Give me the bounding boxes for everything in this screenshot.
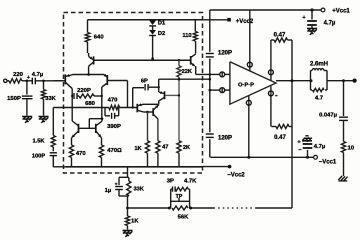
svg-text:33K: 33K — [133, 186, 144, 192]
compensation column wire — [209, 10, 212, 157]
+Vcc1 rail wire — [210, 9, 321, 11]
svg-text:470: 470 — [108, 98, 119, 104]
svg-text:4.7µ: 4.7µ — [32, 72, 44, 78]
wire Q5 collector to Q6 base — [144, 111, 153, 114]
capacitor 4.7u -Vcc1 decoupling — [297, 140, 326, 159]
wire A drop at Q4 emitter — [158, 79, 160, 92]
wire input to Q1 base — [53, 80, 65, 82]
resistor 470 left — [69, 145, 86, 167]
hybrid module dashed box — [64, 13, 203, 174]
svg-text:470: 470 — [76, 151, 87, 157]
svg-text:4.7µ: 4.7µ — [324, 20, 336, 26]
wire module to feedback divider — [127, 167, 129, 178]
wire input node X — [22, 80, 32, 82]
svg-text:47: 47 — [162, 144, 168, 150]
capacitor 4.7u +Vcc1 decoupling — [302, 8, 336, 28]
wire Q4 base — [165, 94, 180, 96]
svg-text:3P: 3P — [167, 178, 174, 184]
wire to output terminal — [327, 80, 353, 82]
+Vcc2 terminal — [227, 18, 254, 25]
resistor 33K to ground — [41, 81, 56, 116]
svg-text:22K: 22K — [182, 69, 193, 75]
resistor 33K feedback — [127, 177, 145, 196]
resistor 220 input — [9, 72, 24, 83]
capacitor 4.7u input coupling — [27, 72, 44, 84]
resistor 0.47 lower boost — [271, 124, 292, 141]
svg-text:33K: 33K — [45, 96, 56, 102]
input terminal — [4, 79, 9, 82]
svg-text:0.47: 0.47 — [274, 135, 286, 141]
feedback rail — [53, 107, 137, 109]
svg-text:10: 10 — [348, 145, 355, 151]
wire Q2 collector down — [101, 87, 103, 119]
resistor 47 — [156, 119, 169, 167]
svg-text:1K: 1K — [134, 146, 142, 152]
svg-text:120P: 120P — [218, 136, 232, 142]
svg-text:2.6mH: 2.6mH — [310, 61, 328, 67]
transistor Qa bias — [89, 53, 94, 75]
capacitor 100P feedback chain — [32, 147, 57, 167]
wire A horizontal — [159, 78, 210, 81]
bias rail Qa base to Qb base — [94, 59, 190, 61]
svg-text:680: 680 — [85, 101, 96, 107]
svg-text:110: 110 — [182, 33, 191, 39]
resistor 1K to ground — [125, 208, 139, 230]
resistor 470 right — [99, 145, 122, 167]
wire divider node down — [126, 196, 129, 209]
diode D2 — [149, 26, 165, 37]
svg-text:+Vcc2: +Vcc2 — [236, 19, 254, 25]
resistor 110 — [182, 20, 197, 54]
ground below zobel — [338, 176, 347, 181]
resistor 680 degeneration — [71, 94, 103, 107]
svg-text:−Vcc2: −Vcc2 — [227, 173, 245, 179]
svg-text:220: 220 — [13, 72, 24, 78]
op-amp U1 triangle — [230, 62, 276, 104]
op-amp boost pin lower — [268, 86, 277, 126]
resistor 640 — [85, 20, 104, 53]
svg-text:0.47: 0.47 — [274, 33, 286, 39]
svg-text:1K: 1K — [131, 218, 139, 224]
svg-text:100P: 100P — [32, 154, 45, 160]
wire Qb emitter to op amp input — [196, 73, 220, 76]
svg-text:220P: 220P — [77, 88, 91, 94]
-Vcc1 rail wire — [210, 156, 313, 159]
svg-text:D1: D1 — [158, 21, 165, 27]
resistor 1.5K feedback chain — [32, 108, 55, 148]
bottom supply rail -Vcc2 inside module — [66, 166, 203, 168]
ground below 1K — [123, 231, 133, 237]
svg-text:2K: 2K — [183, 145, 191, 151]
transistor Q4 tail source — [159, 91, 165, 104]
+Vcc1 terminal — [321, 8, 350, 14]
svg-text:640: 640 — [94, 35, 105, 41]
svg-text:150P: 150P — [7, 96, 21, 102]
op-amp boost pin upper — [268, 40, 273, 80]
op-amp inverting input pin — [220, 72, 230, 77]
transistor Q6 — [153, 105, 159, 119]
ground below +Vcc1 cap — [307, 29, 317, 35]
capacitor 1u feedback — [105, 177, 128, 196]
op-amp non-inverting input pin — [220, 88, 230, 93]
wire -Vcc2 out of module — [203, 166, 230, 168]
junction node X — [26, 80, 29, 83]
capacitor 390P bypass — [105, 108, 121, 131]
second stage tail roof — [143, 103, 159, 105]
svg-text:4.7K: 4.7K — [184, 178, 197, 184]
capacitor 6P — [132, 79, 160, 109]
op-amp V+ pin — [247, 10, 252, 71]
transistor Q2 — [102, 74, 108, 87]
wire Qb collector to 110 — [0, 0, 1, 1]
svg-text:D2: D2 — [158, 31, 165, 37]
wire D2 to bias rail — [151, 36, 154, 60]
resistor 56K in feedback wire — [168, 206, 192, 221]
wire node Y after coupling cap — [35, 80, 63, 82]
mirror base wire — [79, 127, 95, 129]
trimmer TP block with 3P and 4.7K — [167, 178, 197, 208]
output terminal — [353, 79, 357, 83]
transistor Q5 — [137, 103, 143, 112]
svg-text:1.5K: 1.5K — [32, 139, 45, 145]
capacitor 120P upper — [206, 51, 232, 57]
wire Q2 base right and down to fb rail — [108, 81, 128, 108]
op-amp V- pin — [246, 96, 251, 157]
svg-text:390P: 390P — [107, 124, 121, 130]
transistor Qb — [191, 54, 196, 66]
svg-text:4.7µ: 4.7µ — [314, 144, 326, 150]
emitter roof wire Q1-Q2 — [73, 74, 104, 76]
svg-text:1µ: 1µ — [105, 188, 112, 194]
junction tail on roof — [87, 73, 90, 76]
svg-text:120P: 120P — [218, 51, 232, 57]
ground below 33K — [39, 117, 49, 123]
transistor Q3a mirror — [72, 121, 79, 145]
ground below 150P — [22, 117, 32, 123]
capacitor 120P lower — [206, 134, 232, 142]
svg-text:+Vcc1: +Vcc1 — [332, 8, 350, 14]
wire +Vcc2 out of module — [203, 19, 230, 21]
capacitor 220P degeneration — [74, 88, 91, 99]
capacitor 150P — [7, 81, 32, 116]
resistor 0.47 upper boost — [271, 33, 292, 81]
svg-text:O·P·P: O·P·P — [238, 83, 254, 89]
junction node Y — [42, 80, 45, 83]
resistor 2K — [177, 79, 191, 167]
svg-text:56K: 56K — [178, 215, 190, 221]
ground above -Vcc1 cap — [302, 136, 312, 141]
wire boost lower to output column — [291, 81, 293, 208]
svg-text:0.047µ: 0.047µ — [319, 112, 337, 118]
mirror base-collector loop — [89, 117, 103, 128]
wire Q1 collector down — [71, 89, 73, 121]
-Vcc1 terminal — [314, 155, 337, 165]
svg-text:470Ω: 470Ω — [107, 148, 122, 154]
feedback wire bottom — [128, 207, 293, 209]
resistor 1K second stage — [134, 112, 149, 167]
zobel capacitor 0.047u — [319, 79, 348, 141]
wire B to op amp input — [209, 89, 220, 92]
inductor 2.6mH with resistor 4.7 — [310, 61, 328, 101]
zobel resistor 10 — [341, 142, 354, 177]
resistor 22K — [177, 59, 193, 79]
diode D1 — [149, 20, 165, 27]
transistor Q3b mirror — [96, 119, 102, 145]
svg-text:4.7: 4.7 — [315, 96, 324, 102]
svg-text:6P: 6P — [141, 79, 148, 85]
wire 100P to bottom rail — [53, 166, 66, 168]
-Vcc2 terminal — [227, 165, 245, 179]
transistor Q1 input — [65, 74, 73, 89]
svg-text:−Vcc1: −Vcc1 — [319, 160, 337, 166]
wire Qb emitter down — [195, 66, 197, 74]
resistor 470 in feedback rail — [108, 98, 120, 110]
top supply rail +Vcc2 inside module — [88, 19, 203, 21]
op-amp output wire — [276, 79, 313, 82]
